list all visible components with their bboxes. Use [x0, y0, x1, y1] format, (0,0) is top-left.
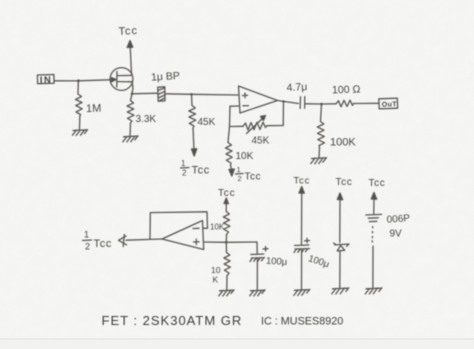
svg-text:OuT: OuT [382, 101, 398, 109]
half-Tcc arrow (under R3) [181, 149, 210, 178]
svg-text:2: 2 [85, 242, 90, 252]
svg-text:1: 1 [84, 230, 89, 240]
battery BT1 006P 9V [366, 213, 411, 288]
svg-text:Tcc: Tcc [336, 177, 353, 188]
svg-text:Tcc: Tcc [245, 172, 262, 183]
svg-text:K: K [213, 275, 219, 285]
svg-text:100K: 100K [330, 137, 356, 149]
wire node F to C3 [226, 241, 257, 243]
svg-text:9V: 9V [390, 229, 403, 240]
op-amp U1 [239, 86, 278, 113]
power Tcc (top arrow) [118, 25, 138, 48]
svg-text:Tcc: Tcc [218, 188, 235, 199]
svg-text:10: 10 [211, 265, 221, 275]
wire node B to C1 [132, 92, 157, 95]
ground (under C4) [294, 289, 310, 295]
node A (gate node) [77, 79, 80, 82]
wire feedback left vertical [229, 106, 232, 126]
IN connector J1 [37, 75, 54, 87]
ground (under R2) [123, 136, 138, 142]
resistor R6 100K [317, 104, 356, 158]
svg-text:1M: 1M [86, 103, 102, 116]
node F (half-Tcc node) [225, 241, 228, 244]
resistor R3 45K [189, 94, 216, 150]
svg-text:10K: 10K [210, 223, 225, 232]
svg-text:100μ: 100μ [266, 256, 288, 268]
svg-text:Tcc: Tcc [192, 165, 210, 177]
wire U1 minus input [230, 105, 239, 107]
transistor Q1 (JFET 2SK30) [110, 68, 133, 91]
OUT connector J2 [379, 98, 398, 109]
half-Tcc arrow (under R4) [229, 165, 261, 183]
diode D1 [334, 243, 350, 288]
ground (under BT1) [365, 288, 382, 294]
power Tcc (column 1) [294, 176, 311, 246]
svg-text:1μ BP: 1μ BP [151, 70, 180, 83]
svg-text:Tcc: Tcc [94, 238, 113, 250]
power Tcc (divider top) [218, 188, 235, 212]
svg-text:IC : MUSES8920: IC : MUSES8920 [261, 316, 343, 328]
svg-text:006P: 006P [386, 213, 410, 226]
node D (output/feedback junction) [282, 100, 284, 102]
capacitor C4 100u (electrolytic) [294, 238, 331, 289]
svg-text:IN: IN [40, 75, 53, 86]
svg-text:2: 2 [238, 174, 242, 183]
potentiometer VR1 45K [230, 116, 284, 147]
capacitor C2 4.7u [286, 81, 307, 108]
capacitor C1 1u BP [151, 70, 180, 101]
wire U2 plus input to node F [204, 241, 226, 243]
resistor R8 10K (lower) [211, 242, 230, 290]
wire node C to op-amp + input [192, 93, 239, 96]
resistor R1 1M [76, 81, 102, 130]
svg-text:45K: 45K [198, 117, 216, 128]
wire IN to gate node [54, 80, 78, 82]
svg-text:3.3K: 3.3K [136, 114, 157, 125]
svg-text:100 Ω: 100 Ω [332, 83, 361, 96]
svg-text:4.7μ: 4.7μ [286, 81, 307, 94]
power Tcc (column 3) [369, 178, 386, 214]
half-Tcc arrow (U2 output) [83, 230, 127, 252]
capacitor C3 100u (electrolytic) [250, 242, 288, 290]
node C [190, 93, 193, 96]
svg-text:1: 1 [181, 159, 186, 168]
wire Q1 drain to Vcc arrow [130, 46, 131, 75]
svg-text:1: 1 [237, 165, 241, 174]
wire feedback loop U2 [150, 212, 208, 239]
svg-text:FET : 2SK30ATM GR: FET : 2SK30ATM GR [102, 313, 243, 328]
ground (under D1) [332, 288, 349, 294]
wire Q1 source down to node B [132, 82, 133, 94]
op-amp U2 (buffer, points left) [162, 221, 204, 250]
node E [320, 103, 323, 106]
svg-text:Tcc: Tcc [118, 25, 138, 38]
svg-text:Tcc: Tcc [294, 176, 311, 187]
wire node A to FET gate [78, 80, 110, 81]
resistor R4 10K [226, 127, 254, 171]
wire feedback right vertical [282, 102, 284, 126]
node B (source node) [131, 93, 134, 96]
svg-text:2: 2 [182, 169, 187, 178]
svg-text:45K: 45K [252, 136, 270, 147]
ground (under C3) [250, 290, 265, 296]
svg-text:Tcc: Tcc [369, 178, 386, 189]
power Tcc (column 2) [336, 177, 353, 243]
wire C2 to node E [305, 103, 322, 105]
ground (under R6) [311, 158, 327, 164]
resistor R2 3.3K [127, 94, 156, 136]
wire U2 minus to feedback [203, 227, 208, 229]
wire U1 output [278, 101, 299, 104]
resistor R7 10K (upper) [210, 212, 230, 243]
svg-text:10K: 10K [236, 151, 254, 162]
ground (under R8) [219, 290, 234, 296]
wire C1 to node C [165, 93, 192, 96]
resistor R5 100 ohm [322, 83, 379, 106]
ground (under R1) [73, 130, 88, 136]
wire U2 output [126, 239, 162, 240]
